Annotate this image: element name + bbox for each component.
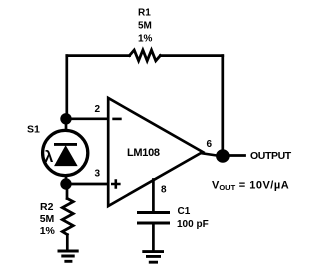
svg-text:R2: R2 (40, 201, 54, 213)
junction dot output node (216, 149, 230, 163)
resistor R1 (130, 50, 161, 61)
svg-text:R1: R1 (138, 8, 151, 19)
op-amp plus sign (111, 179, 121, 188)
svg-text:C1: C1 (178, 206, 191, 217)
wire C1 bottom lead (152, 224, 155, 250)
photodiode S1 circle (43, 130, 88, 175)
svg-text:S1: S1 (27, 124, 40, 136)
wire photodiode top lead (65, 119, 68, 144)
svg-text:5M: 5M (138, 21, 152, 32)
ground under C1 (142, 252, 164, 263)
photodiode cathode bar (54, 143, 77, 146)
svg-text:8: 8 (161, 185, 167, 196)
svg-text:3: 3 (95, 169, 101, 180)
svg-text:λ: λ (44, 149, 53, 166)
resistor R2 (62, 199, 73, 235)
photodiode anode triangle (55, 146, 77, 165)
svg-text:VOUT = 10V/µA: VOUT = 10V/µA (212, 179, 289, 192)
op-amp U1 LM108 triangle (108, 98, 203, 206)
op-amp minus sign (112, 118, 121, 121)
wire pin2 (66, 117, 108, 120)
svg-text:5M: 5M (40, 213, 55, 225)
capacitor C1 plates (137, 213, 170, 224)
wire feedback right vertical (221, 56, 224, 152)
wire pin3 (66, 183, 108, 186)
svg-text:2: 2 (95, 104, 101, 115)
junction dot node pin2/photodiode (60, 113, 71, 124)
wire feedback top horizontal right (160, 54, 222, 57)
svg-text:6: 6 (207, 139, 213, 150)
junction dot node pin3/photodiode/R2 (60, 178, 71, 189)
wire output (223, 154, 245, 157)
svg-text:LM108: LM108 (127, 147, 160, 159)
wire photodiode bottom lead (65, 164, 68, 184)
svg-text:1%: 1% (138, 33, 153, 44)
wire feedback left vertical (65, 56, 68, 119)
ground under R2 (58, 251, 79, 261)
wire feedback top horizontal left (67, 54, 130, 57)
wire R2 bottom lead (66, 235, 69, 250)
wire pin8 vertical (152, 180, 155, 212)
svg-text:1%: 1% (40, 225, 56, 237)
svg-text:100 pF: 100 pF (177, 219, 209, 230)
wire R2 top lead (66, 184, 69, 199)
wire pin6 (202, 153, 219, 156)
svg-text:OUTPUT: OUTPUT (250, 150, 292, 162)
